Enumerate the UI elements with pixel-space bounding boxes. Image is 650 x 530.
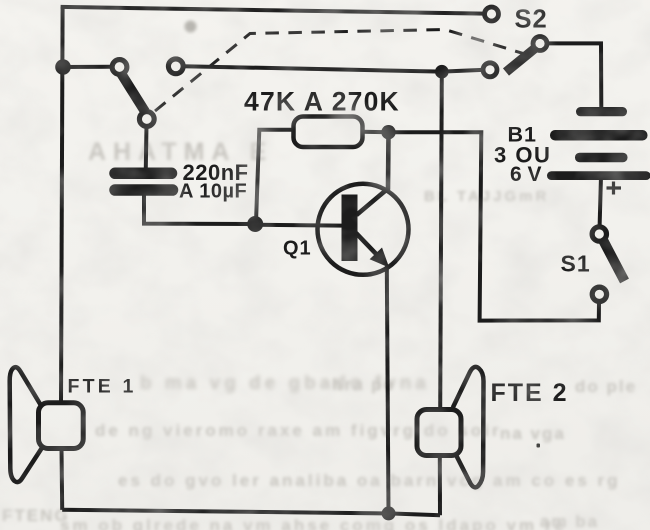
mechanical coupling dashed link between S2a and S2b (155, 30, 533, 112)
transistor Q1 emitter arrowhead (371, 249, 387, 265)
capacitor C plate bottom (115, 184, 173, 196)
resistor R body 47K-270K (294, 117, 363, 148)
wire: upper horizontal from node A to switch terminal (63, 65, 112, 69)
ghost gray dot (185, 21, 197, 33)
switch S2a terminal circle (common, left) (112, 60, 127, 75)
transistor Q1 collector line (357, 133, 389, 215)
battery B1 plate 1 (short) (576, 107, 627, 116)
node B (junction dot, top wire to FTE2 branch) (435, 65, 449, 79)
node D (base junction dot) (247, 216, 263, 232)
switch S1 lower terminal circle (592, 287, 606, 301)
wire: FTE1 bottom to bottom rail corner (60, 449, 65, 510)
speaker FTE2 cone (453, 367, 484, 487)
wire: left border vertical (61, 7, 63, 403)
resistor R lead left to node D (256, 130, 294, 222)
resistor R lead right (363, 130, 389, 135)
wire: bottom rail (62, 510, 440, 515)
speaker FTE1 coil square (39, 403, 84, 449)
wire: emitter down to bottom rail (387, 266, 389, 513)
node A (junction dot, left border) (55, 59, 71, 75)
transistor Q1 emitter line (356, 233, 380, 258)
node E (emitter junction dot on bottom rail) (382, 506, 396, 520)
wire: S1 to collector node (394, 132, 599, 320)
wire: capacitor bottom to node D (144, 196, 255, 225)
speaker FTE1 cone (10, 367, 42, 482)
wire: upper horizontal from S2a to S2b with junction (183, 66, 483, 71)
wire: node B down to FTE2 top (440, 72, 442, 410)
wire: FTE2 bottom down (438, 456, 442, 516)
wire: S2 common to battery top (547, 43, 602, 107)
switch S2b upper terminal circle (485, 7, 499, 21)
battery B1 plate 2 (long) (550, 130, 648, 141)
stray ink speck (537, 444, 541, 448)
battery plus sign (607, 182, 622, 195)
node C (collector junction dot) (381, 125, 395, 139)
switch S2b common terminal circle (533, 37, 547, 51)
capacitor C plate top (115, 168, 172, 180)
switch S2a terminal circle (throw, lower) (139, 112, 154, 127)
wire: top horizontal to S2 upper terminal (61, 7, 484, 14)
battery B1 plate 3 (short) (575, 153, 628, 163)
speaker FTE2 coil square (417, 410, 461, 456)
switch S2a terminal circle (throw, right) (168, 59, 183, 74)
wire: battery bottom to S1 (600, 180, 601, 226)
switch S2b lower terminal circle (483, 63, 497, 77)
switch S2b lever (506, 48, 536, 73)
wire: S2a lower throw to capacitor top (144, 125, 149, 168)
transistor Q1 base bar (342, 195, 358, 262)
battery B1 plate 4 (long) (547, 171, 650, 180)
switch S1 lever (604, 241, 625, 281)
switch S1 upper terminal circle (592, 227, 606, 241)
transistor Q1 circle (318, 184, 409, 275)
switch S2a lever (121, 73, 146, 112)
wire: node D to transistor base (255, 223, 342, 228)
